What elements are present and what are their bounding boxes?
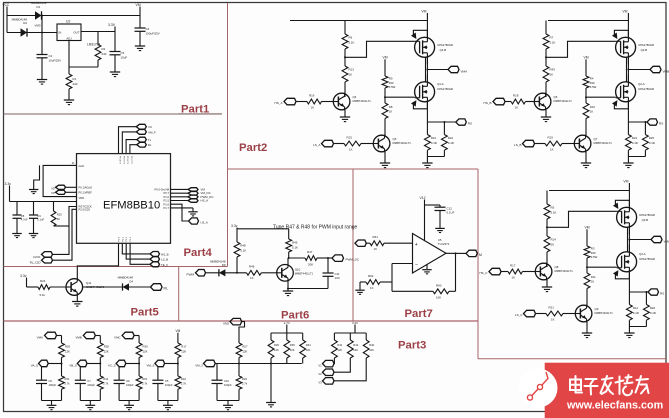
mosfet Q3-A bbox=[617, 252, 637, 272]
resistor R15 bbox=[344, 141, 361, 146]
svg-text:R15: R15 bbox=[347, 136, 353, 140]
capacitor C2 bbox=[37, 54, 48, 56]
wire 3.3V rail bbox=[10, 201, 77, 203]
svg-text:C2: C2 bbox=[49, 54, 53, 58]
wire bbox=[563, 313, 576, 315]
wire to ground bbox=[270, 364, 272, 403]
wire bbox=[334, 358, 366, 381]
connector U3_A bbox=[189, 218, 199, 224]
svg-text:Part2: Part2 bbox=[239, 142, 267, 154]
wire to regulator input bbox=[7, 32, 57, 34]
wire bbox=[261, 272, 277, 274]
capacitor C7 bbox=[79, 367, 81, 380]
partition line Part2 bottom bbox=[228, 168, 479, 170]
svg-text:VM: VM bbox=[583, 55, 588, 59]
svg-text:1K: 1K bbox=[515, 106, 519, 110]
svg-text:R45: R45 bbox=[292, 241, 298, 245]
ground bbox=[34, 165, 40, 189]
connector PWM_DC out bbox=[332, 255, 344, 262]
resistor R31 bbox=[61, 364, 63, 377]
resistor R42 bbox=[349, 333, 351, 340]
svg-text:R62: R62 bbox=[368, 274, 374, 278]
wire bbox=[61, 358, 63, 364]
wire bbox=[586, 258, 588, 273]
svg-text:R10: R10 bbox=[590, 105, 596, 109]
mosfet Q3-B bbox=[617, 207, 637, 227]
svg-text:D2: D2 bbox=[23, 21, 27, 25]
svg-text:HS_B: HS_B bbox=[161, 253, 169, 257]
svg-text:R23: R23 bbox=[632, 136, 638, 140]
svg-text:Q3-B: Q3-B bbox=[642, 218, 649, 222]
svg-text:P1.1: P1.1 bbox=[122, 236, 124, 241]
wire top rail bbox=[549, 190, 629, 192]
svg-text:Q10: Q10 bbox=[295, 268, 301, 272]
resistor R1 bbox=[68, 67, 70, 74]
svg-text:OUT: OUT bbox=[73, 31, 79, 35]
svg-text:C6: C6 bbox=[49, 379, 53, 383]
svg-text:VM: VM bbox=[382, 55, 387, 59]
svg-text:2K: 2K bbox=[57, 217, 60, 221]
node gate drive bbox=[546, 226, 548, 228]
wire bbox=[526, 101, 535, 103]
svg-text:VMA: VMA bbox=[461, 69, 469, 73]
svg-text:VM: VM bbox=[421, 9, 426, 13]
resistor R28 bbox=[97, 343, 103, 358]
svg-text:P1.3: P1.3 bbox=[130, 236, 132, 241]
svg-text:P0.5/TX: P0.5/TX bbox=[122, 156, 124, 164]
svg-text:VM: VM bbox=[584, 225, 589, 229]
svg-text:1K: 1K bbox=[370, 286, 374, 290]
transistor Q9 bbox=[575, 305, 592, 322]
wire emitter loop bbox=[287, 281, 289, 289]
wire rail bbox=[271, 332, 303, 334]
svg-text:R16: R16 bbox=[309, 94, 315, 98]
svg-text:2.7k: 2.7k bbox=[181, 382, 187, 386]
svg-text:ADJ: ADJ bbox=[66, 36, 72, 40]
ground bbox=[12, 233, 21, 235]
svg-text:5.1K: 5.1K bbox=[240, 249, 246, 253]
connector RX bbox=[137, 142, 147, 147]
svg-text:P1.5: P1.5 bbox=[164, 199, 170, 203]
wire FET source down bbox=[628, 272, 630, 292]
wire bbox=[238, 358, 240, 364]
svg-text:R48: R48 bbox=[240, 244, 246, 248]
resistor R32 bbox=[99, 364, 101, 377]
regulator U2 LM317 bbox=[57, 24, 81, 41]
svg-text:R26: R26 bbox=[65, 345, 71, 349]
svg-text:UPA2780GR: UPA2780GR bbox=[638, 87, 654, 91]
svg-text:R27: R27 bbox=[242, 345, 248, 349]
svg-text:VCC: VCC bbox=[3, 3, 10, 7]
svg-text:5.1K: 5.1K bbox=[349, 41, 355, 45]
svg-text:−: − bbox=[415, 262, 418, 268]
svg-text:VB_S: VB_S bbox=[69, 363, 76, 367]
resistor R62 bbox=[360, 281, 366, 283]
svg-text:0.1R: 0.1R bbox=[633, 311, 639, 315]
connector HS_A bbox=[188, 199, 198, 203]
capacitor C10 bbox=[216, 364, 218, 380]
wire VCC down bbox=[6, 16, 8, 33]
svg-text:1K: 1K bbox=[389, 110, 393, 114]
mosfet Q4-A bbox=[415, 82, 435, 102]
resistor R10 bbox=[583, 103, 589, 119]
connector op-amp input bbox=[355, 240, 366, 246]
svg-text:RL_C2D: RL_C2D bbox=[30, 260, 41, 264]
svg-text:VMA: VMA bbox=[37, 335, 43, 339]
wire output node bbox=[629, 291, 648, 293]
svg-text:R14: R14 bbox=[551, 238, 557, 242]
svg-text:VM_F: VM_F bbox=[148, 130, 156, 134]
wire bottom bbox=[119, 400, 139, 402]
svg-text:Part7: Part7 bbox=[405, 308, 433, 320]
resistor R26 bbox=[645, 292, 647, 305]
connector VMB bbox=[628, 69, 650, 71]
transistor Q8 bbox=[535, 263, 552, 280]
svg-text:1K: 1K bbox=[349, 148, 353, 152]
svg-text:3.3V: 3.3V bbox=[352, 321, 358, 325]
wire bbox=[87, 363, 100, 365]
svg-text:R61: R61 bbox=[373, 235, 379, 239]
ground bbox=[64, 99, 74, 101]
svg-text:Q2-B: Q2-B bbox=[641, 48, 648, 52]
svg-text:2.7k: 2.7k bbox=[65, 382, 71, 386]
svg-text:100pF: 100pF bbox=[87, 383, 95, 387]
wire interconnect bbox=[627, 57, 629, 82]
svg-text:Q11: Q11 bbox=[86, 281, 92, 285]
wire FET source down bbox=[426, 102, 428, 122]
svg-text:R13: R13 bbox=[349, 68, 355, 72]
svg-text:PWM: PWM bbox=[187, 273, 195, 277]
wire bbox=[99, 358, 101, 364]
svg-text:R31: R31 bbox=[65, 377, 70, 381]
op-amp U5 bbox=[413, 234, 447, 274]
svg-text:Rx: Rx bbox=[148, 143, 152, 147]
svg-text:100pF: 100pF bbox=[126, 383, 134, 387]
svg-text:1K: 1K bbox=[311, 106, 315, 110]
wire bbox=[50, 286, 66, 288]
ground bbox=[541, 116, 551, 118]
resistor R16 bbox=[307, 99, 322, 104]
svg-text:Part4: Part4 bbox=[184, 247, 213, 259]
wire emitter bbox=[586, 322, 588, 333]
svg-text:P2.0/C2D: P2.0/C2D bbox=[79, 208, 91, 212]
resistor R7 bbox=[545, 21, 547, 35]
svg-text:10uF: 10uF bbox=[121, 56, 128, 60]
resistor R12 bbox=[628, 292, 630, 305]
svg-text:R34: R34 bbox=[306, 343, 311, 347]
svg-text:0.1R: 0.1R bbox=[632, 141, 638, 145]
ground bbox=[287, 289, 289, 291]
ground bbox=[37, 79, 47, 81]
connector TX bbox=[137, 137, 147, 142]
svg-text:20K: 20K bbox=[308, 262, 313, 266]
ground bbox=[340, 116, 350, 118]
transistor Q10 bbox=[277, 265, 294, 282]
wire MCU to Q11 collector bbox=[77, 243, 118, 279]
svg-text:Part3: Part3 bbox=[398, 339, 426, 351]
svg-text:VM_3: VM_3 bbox=[195, 363, 203, 367]
resistor R48 bbox=[234, 242, 240, 257]
connector LS_B bbox=[150, 257, 160, 262]
connector TE_F bbox=[150, 262, 160, 267]
svg-text:R10: R10 bbox=[431, 136, 437, 140]
ground bbox=[163, 404, 173, 406]
svg-text:P0.1/VREF: P0.1/VREF bbox=[79, 191, 93, 195]
partition line Part1 bottom bbox=[4, 113, 223, 115]
transistor Q11 bbox=[66, 279, 83, 296]
svg-text:100pF: 100pF bbox=[165, 383, 173, 387]
wire bbox=[384, 119, 386, 136]
svg-text:C7: C7 bbox=[87, 379, 91, 383]
svg-text:1K: 1K bbox=[550, 148, 554, 152]
svg-text:RS: RS bbox=[468, 122, 472, 126]
resistor R14 bbox=[544, 236, 550, 252]
svg-text:HS_A: HS_A bbox=[201, 199, 209, 203]
capacitor C6 bbox=[41, 367, 43, 380]
svg-text:100uF/25V: 100uF/25V bbox=[146, 32, 160, 36]
svg-text:VA_S: VA_S bbox=[31, 363, 38, 367]
resistor R25 bbox=[644, 122, 646, 135]
wire emitter bbox=[545, 110, 547, 117]
svg-text:R2: R2 bbox=[102, 47, 106, 51]
wire bbox=[48, 363, 61, 365]
wire inverting input bbox=[392, 263, 413, 265]
svg-text:LS_A: LS_A bbox=[313, 143, 321, 147]
svg-text:100pF: 100pF bbox=[224, 383, 232, 387]
svg-text:MMBT4401LT1: MMBT4401LT1 bbox=[595, 311, 614, 315]
resistor R46 bbox=[247, 270, 262, 275]
resistor R17 bbox=[508, 269, 523, 274]
svg-text:0.1UF: 0.1UF bbox=[447, 211, 455, 215]
svg-text:R24: R24 bbox=[40, 279, 46, 283]
svg-text:1K: 1K bbox=[590, 110, 594, 114]
svg-text:LS_C: LS_C bbox=[515, 313, 523, 317]
resistor R35 bbox=[286, 333, 288, 340]
svg-text:1K: 1K bbox=[551, 243, 555, 247]
ground bbox=[110, 71, 120, 73]
capacitor C5 bbox=[157, 367, 159, 380]
svg-text:R1: R1 bbox=[73, 77, 77, 81]
svg-text:V3: V3 bbox=[318, 381, 322, 385]
svg-text:12K: 12K bbox=[290, 348, 295, 352]
svg-text:R18: R18 bbox=[513, 94, 519, 98]
wire MCU top pins bbox=[119, 127, 137, 154]
partition line Part5/Part6 divider bbox=[178, 267, 180, 322]
svg-text:V12: V12 bbox=[420, 196, 426, 200]
svg-text:0.5W: 0.5W bbox=[591, 255, 598, 259]
wire C2D up bbox=[53, 209, 77, 260]
svg-text:R43: R43 bbox=[550, 68, 556, 72]
ground bbox=[380, 162, 390, 164]
svg-text:1K: 1K bbox=[250, 276, 254, 280]
svg-text:P0.7: P0.7 bbox=[164, 191, 170, 195]
partition line right bottom bbox=[478, 358, 667, 360]
svg-text:0.1R: 0.1R bbox=[649, 141, 655, 145]
ground bbox=[135, 45, 145, 47]
svg-text:R7: R7 bbox=[550, 36, 554, 40]
transistor Q7 bbox=[574, 135, 591, 152]
svg-text:VMC: VMC bbox=[114, 335, 120, 339]
wire MCU bottom pins bbox=[122, 243, 150, 254]
svg-text:Q8: Q8 bbox=[555, 265, 559, 269]
svg-text:12K: 12K bbox=[65, 349, 70, 353]
svg-text:MMBT4401LT1: MMBT4401LT1 bbox=[555, 269, 574, 273]
connector C2 debug pins bbox=[56, 185, 66, 189]
ground bbox=[359, 282, 361, 290]
svg-text:VC_S: VC_S bbox=[108, 363, 116, 367]
ground bbox=[124, 404, 134, 406]
wire bbox=[57, 335, 62, 337]
watermark logo circle bbox=[519, 369, 558, 408]
resistor R30 bbox=[136, 343, 142, 358]
wire feedback up bbox=[449, 290, 456, 292]
capacitor C9 bbox=[118, 367, 120, 380]
svg-text:R17: R17 bbox=[510, 264, 516, 268]
diode D9 bbox=[218, 269, 220, 276]
svg-text:2.7k: 2.7k bbox=[103, 382, 109, 386]
ground bbox=[581, 162, 591, 164]
resistor R9 bbox=[382, 76, 388, 88]
svg-text:1K: 1K bbox=[512, 276, 516, 280]
node gate drive bbox=[344, 56, 346, 58]
wire high-side gate bbox=[546, 41, 616, 57]
svg-text:P1.6: P1.6 bbox=[164, 202, 170, 206]
wire interconnect bbox=[426, 57, 428, 82]
svg-text:R28: R28 bbox=[104, 345, 110, 349]
svg-text:GnD: GnD bbox=[79, 164, 85, 168]
svg-text:C8: C8 bbox=[21, 214, 25, 218]
wire interconnect bbox=[628, 227, 630, 252]
wire bbox=[523, 271, 536, 273]
svg-text:R46: R46 bbox=[249, 264, 255, 268]
wire bbox=[322, 101, 334, 103]
svg-text:R32: R32 bbox=[103, 377, 108, 381]
svg-text:R11: R11 bbox=[591, 275, 596, 279]
capacitor C11 bbox=[327, 258, 329, 273]
ground bbox=[623, 162, 633, 164]
wire emitter bbox=[384, 152, 386, 163]
transistor Q5 bbox=[373, 135, 390, 152]
svg-text:1K: 1K bbox=[550, 73, 554, 77]
svg-text:P0.4/TX: P0.4/TX bbox=[119, 156, 121, 164]
transistor Q4 bbox=[333, 93, 350, 110]
svg-text:Part6: Part6 bbox=[281, 309, 309, 321]
svg-text:12K: 12K bbox=[104, 349, 109, 353]
wire bbox=[134, 335, 139, 337]
svg-text:C4: C4 bbox=[146, 27, 150, 31]
resistor R29 bbox=[238, 364, 240, 377]
resistor R60 feedback bbox=[392, 290, 433, 292]
svg-text:12K: 12K bbox=[181, 349, 186, 353]
svg-text:C5: C5 bbox=[165, 379, 169, 383]
wire low-side gate bbox=[587, 266, 617, 268]
svg-text:Tune R47 & R48 for PWM input r: Tune R47 & R48 for PWM input range bbox=[273, 225, 358, 231]
wire R20 to RST bbox=[54, 225, 70, 227]
svg-text:5.1K: 5.1K bbox=[551, 211, 557, 215]
svg-text:R25: R25 bbox=[649, 136, 655, 140]
wire bbox=[361, 143, 374, 145]
svg-text:2.7k: 2.7k bbox=[142, 382, 148, 386]
svg-text:UPA2780GR: UPA2780GR bbox=[638, 43, 654, 47]
resistor R47 bbox=[305, 256, 317, 261]
wire bbox=[333, 358, 335, 364]
svg-text:P0.6/TX: P0.6/TX bbox=[126, 156, 128, 164]
svg-text:Q6: Q6 bbox=[554, 95, 558, 99]
connector VMA bbox=[427, 69, 448, 71]
wire bbox=[585, 88, 587, 103]
svg-text:TLV2371: TLV2371 bbox=[438, 242, 450, 246]
wire bottom bbox=[80, 400, 100, 402]
svg-text:HS_B: HS_B bbox=[484, 101, 492, 105]
svg-text:P1.0: P1.0 bbox=[164, 195, 170, 199]
svg-text:R34: R34 bbox=[181, 377, 186, 381]
connector M out bbox=[466, 250, 477, 256]
wire rail bbox=[334, 332, 366, 334]
wire bbox=[66, 186, 77, 188]
node gate drive bbox=[545, 56, 547, 58]
resistor R36 bbox=[270, 333, 272, 340]
svg-text:0.1R: 0.1R bbox=[448, 141, 454, 145]
ground bbox=[85, 404, 95, 406]
svg-text:C10: C10 bbox=[224, 379, 229, 383]
svg-text:R5: R5 bbox=[551, 206, 555, 210]
connector VMC bbox=[629, 239, 651, 241]
svg-text:VMB: VMB bbox=[75, 335, 81, 339]
svg-text:www.elecfans.com: www.elecfans.com bbox=[566, 400, 663, 412]
svg-text:UPA2780GR: UPA2780GR bbox=[437, 87, 453, 91]
svg-text:Q9: Q9 bbox=[595, 307, 599, 311]
svg-text:VM_S: VM_S bbox=[146, 363, 154, 367]
svg-text:1K: 1K bbox=[349, 73, 353, 77]
wire high-side gate bbox=[547, 211, 617, 227]
svg-text:LS_B: LS_B bbox=[514, 143, 521, 147]
svg-text:VM: VM bbox=[136, 3, 141, 7]
connector RS bbox=[647, 119, 658, 125]
svg-text:VD: VD bbox=[51, 192, 55, 195]
svg-text:VMC: VMC bbox=[664, 239, 669, 243]
wire U3_A bbox=[171, 204, 189, 221]
wire bbox=[296, 101, 307, 103]
wire top rail bbox=[548, 20, 628, 22]
svg-text:3.3v: 3.3v bbox=[20, 274, 27, 278]
resistor R45 bbox=[288, 229, 290, 239]
wire bbox=[165, 363, 178, 365]
wire emitter bbox=[585, 152, 587, 163]
svg-text:VM: VM bbox=[176, 329, 181, 333]
svg-text:3.3V: 3.3V bbox=[108, 23, 116, 27]
wire low-side gate bbox=[586, 96, 616, 98]
connector VM_DC bbox=[188, 192, 198, 196]
connector RL bbox=[151, 284, 163, 291]
wire C2 to ground bbox=[41, 58, 43, 79]
wire GND loop pin21 bbox=[43, 165, 76, 196]
svg-text:MMBT4401LT1: MMBT4401LT1 bbox=[295, 271, 314, 275]
resistor R17 bbox=[175, 343, 181, 358]
svg-text:4.7uF: 4.7uF bbox=[21, 218, 28, 222]
svg-text:+: + bbox=[415, 242, 418, 248]
resistor R20 bbox=[53, 202, 55, 212]
capacitor C12 bbox=[425, 204, 441, 206]
svg-text:R60: R60 bbox=[436, 283, 442, 287]
wire bbox=[535, 143, 546, 145]
svg-text:12K: 12K bbox=[306, 348, 311, 352]
capacitor C9 bbox=[33, 202, 35, 215]
connector PWM_DC bbox=[188, 195, 198, 199]
svg-text:VDD: VDD bbox=[79, 196, 85, 200]
svg-text:V1: V1 bbox=[318, 363, 322, 367]
svg-text:100pF: 100pF bbox=[49, 383, 57, 387]
resistor R23 bbox=[627, 122, 629, 135]
